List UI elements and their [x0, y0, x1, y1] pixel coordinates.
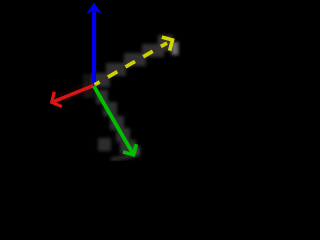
vector b (yellow, dashed, up-right): shaft — [95, 43, 168, 85]
compression halo blocks along vector c — [96, 90, 136, 154]
vector b (yellow) arrowhead — [162, 37, 173, 51]
faint halo along vector a shaft — [90, 10, 99, 83]
vector a (blue, up): shaft — [92, 12, 96, 86]
vector a (blue) arrowhead — [86, 3, 102, 14]
bright artifact block right of yellow head — [172, 42, 179, 55]
faint halo along vector d — [54, 86, 94, 102]
artifact block right of green head — [132, 146, 140, 156]
vector c (green) arrowhead — [123, 144, 136, 155]
artifact streak below green head — [111, 156, 134, 160]
compression halo blocks along dashed vector b — [92, 35, 173, 87]
vector c (green, down-right): shaft — [94, 86, 132, 152]
vector d (red) arrowhead — [52, 92, 62, 107]
vector d (red, down-left): shaft — [54, 86, 94, 102]
faint artifact blob left of origin — [83, 74, 95, 98]
